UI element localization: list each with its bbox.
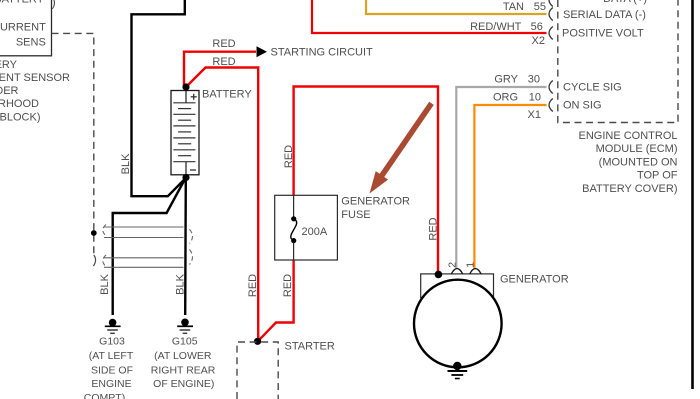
svg-text:BLK: BLK [99, 273, 111, 294]
svg-text:): ) [52, 0, 56, 10]
generator fuse box F1 [275, 195, 338, 260]
dashed link sensor box to shield [52, 33, 94, 256]
label BLK 3 [175, 273, 187, 294]
svg-text:SENS: SENS [16, 36, 46, 48]
svg-text:10: 10 [529, 91, 541, 103]
pin 1 [465, 262, 477, 268]
svg-text:ENGINE: ENGINE [91, 378, 131, 390]
starter dashed box [237, 342, 278, 399]
ground G105 [177, 319, 193, 334]
svg-text:G105: G105 [172, 335, 198, 347]
svg-text:FUSE BLOCK): FUSE BLOCK) [0, 111, 41, 123]
svg-text:BATTERY COVER): BATTERY COVER) [582, 183, 677, 195]
fuse element 200A [291, 195, 297, 260]
svg-text:POSITIVE VOLT: POSITIVE VOLT [562, 27, 644, 39]
svg-text:BLK: BLK [175, 273, 187, 294]
svg-text:STARTER: STARTER [285, 341, 335, 353]
battery current sensor box (top-left, partially cut) [0, 0, 52, 56]
svg-text:RED: RED [428, 217, 440, 240]
battery B1 [171, 91, 199, 175]
svg-text:RED: RED [212, 38, 235, 50]
wire ORG ECM to generator [474, 105, 546, 268]
svg-text:30: 30 [528, 73, 540, 85]
svg-text:TOP OF: TOP OF [637, 170, 678, 182]
svg-text:FUSE: FUSE [341, 209, 370, 221]
wire RED battery to starter [186, 68, 258, 342]
svg-text:2: 2 [447, 262, 459, 268]
svg-text:RED: RED [212, 56, 235, 68]
svg-text:BATTERY: BATTERY [202, 88, 252, 100]
svg-text:ENGINE CONTROL: ENGINE CONTROL [578, 130, 677, 142]
svg-text:RED/WHT: RED/WHT [470, 21, 522, 33]
wire TAN to ECM [366, 0, 547, 14]
svg-text:CYCLE SIG: CYCLE SIG [563, 82, 622, 94]
svg-text:BLK: BLK [120, 153, 132, 174]
shield hook bottom [94, 255, 96, 266]
svg-text:ON SIG: ON SIG [563, 100, 602, 112]
svg-text:(MOUNTED ON: (MOUNTED ON [599, 156, 678, 168]
svg-text:RED: RED [283, 145, 295, 168]
node shield dot [91, 230, 97, 236]
label RED vertical b [283, 145, 295, 168]
wire GRY ECM to generator [456, 87, 546, 268]
svg-text:STARTING CIRCUIT: STARTING CIRCUIT [271, 47, 374, 59]
label RED vertical c [282, 274, 294, 297]
label BLK 2 [99, 273, 111, 294]
label ENGINE CONTROL MODULE (ECM) [578, 130, 677, 195]
arrow to starting circuit [257, 46, 268, 57]
node battery positive [182, 83, 189, 90]
svg-text:RED: RED [282, 274, 294, 297]
pointer arrow (annotation) [370, 103, 432, 193]
label RED vertical a [247, 274, 259, 297]
shield right arcs [190, 229, 193, 264]
svg-text:GENERATOR: GENERATOR [341, 195, 410, 207]
battery plates [173, 103, 195, 162]
shield/loom symbol lines [104, 227, 184, 267]
svg-text:RIGHT REAR: RIGHT REAR [151, 364, 216, 376]
generator ground [448, 362, 468, 379]
svg-text:X2: X2 [532, 35, 545, 47]
svg-text:UNDERHOOD: UNDERHOOD [0, 98, 39, 110]
battery plus sign [191, 94, 197, 100]
svg-text:X1: X1 [528, 109, 541, 121]
svg-text:TAN: TAN [503, 1, 524, 13]
svg-text:GENERATOR: GENERATOR [500, 273, 569, 285]
wire RED battery to starting circuit [184, 52, 256, 87]
svg-text:DATA (+): DATA (+) [603, 0, 647, 5]
svg-text:BATTERY: BATTERY [0, 59, 18, 71]
node generator red terminal [435, 271, 443, 279]
svg-text:CURRENT: CURRENT [0, 21, 46, 33]
svg-text:G103: G103 [99, 335, 125, 347]
wire RED fuse to starter [258, 260, 294, 341]
svg-text:BATTERY: BATTERY [0, 0, 45, 6]
label BLK 1 [120, 153, 132, 174]
generator G1 [414, 274, 502, 367]
generator pin arcs [451, 269, 481, 274]
ground G103 [105, 319, 121, 333]
svg-text:1: 1 [465, 262, 477, 268]
battery minus sign [190, 169, 196, 171]
svg-text:SIDE OF: SIDE OF [91, 364, 133, 376]
wire BLK from top to battery negative [132, 0, 186, 196]
svg-text:OF ENGINE): OF ENGINE) [153, 378, 214, 390]
wire BLK battery negative to G105 [184, 178, 187, 316]
node battery negative [182, 174, 189, 181]
ECM connector pins (female) [549, 0, 553, 112]
svg-text:SERIAL DATA (-): SERIAL DATA (-) [563, 9, 646, 21]
svg-text:(UNDER: (UNDER [0, 85, 19, 97]
svg-text:ORG: ORG [493, 91, 518, 103]
pin 2 [447, 262, 459, 268]
svg-text:CURRENT SENSOR: CURRENT SENSOR [0, 72, 70, 84]
svg-text:55: 55 [534, 1, 546, 13]
svg-text:56: 56 [531, 21, 543, 33]
svg-text:(AT LOWER: (AT LOWER [154, 350, 212, 362]
label RED vertical d [428, 217, 440, 240]
svg-text:MODULE (ECM): MODULE (ECM) [596, 143, 678, 155]
svg-text:(AT LEFT: (AT LEFT [89, 350, 134, 362]
page border line right [691, 0, 694, 389]
shield left arcs [103, 225, 106, 267]
ECM dashed box [558, 0, 678, 123]
node starter junction [254, 338, 261, 345]
wire BLK battery negative to G103 [113, 178, 186, 316]
svg-text:RED: RED [247, 274, 259, 297]
wire RED/WHT to ECM [312, 0, 547, 33]
svg-text:200A: 200A [302, 226, 328, 238]
wire RED fuse to generator [294, 87, 438, 274]
svg-text:COMPT): COMPT) [84, 392, 125, 399]
svg-text:GRY: GRY [494, 73, 518, 85]
